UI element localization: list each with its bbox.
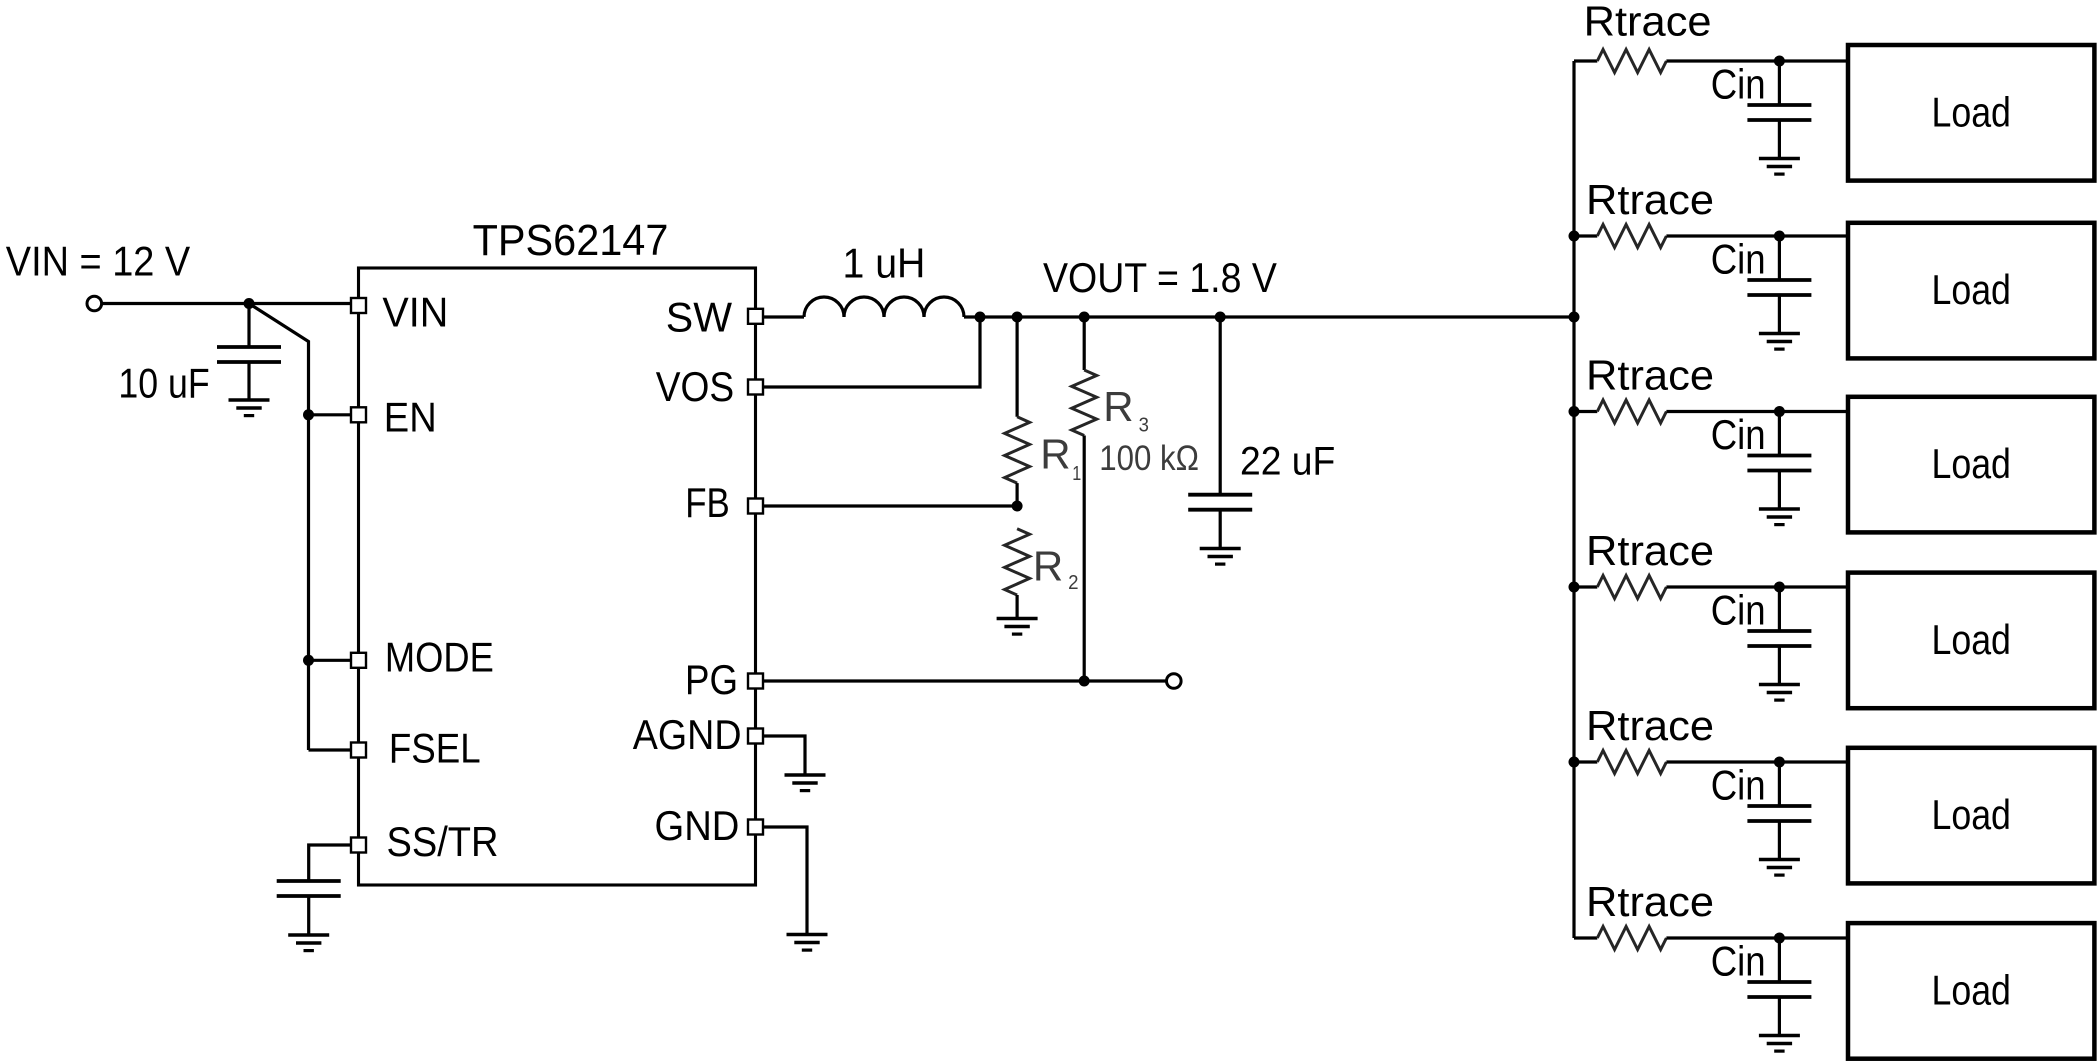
svg-text:MODE: MODE: [385, 633, 494, 680]
resistor Rtrace 2: [1597, 225, 1666, 248]
pin VIN: [351, 298, 366, 313]
node R3 top: [1079, 312, 1090, 323]
node Cin 3 junction: [1774, 406, 1785, 417]
ground Cin 2: [1778, 295, 1781, 334]
wire branch 2 left lead: [1574, 234, 1597, 237]
capacitor C 10uF: [247, 304, 250, 348]
ground Cin 3: [1778, 471, 1781, 510]
ground Cin 6: [1778, 997, 1781, 1036]
wire branch 5 to load: [1666, 760, 1850, 763]
node Cin 2 junction: [1774, 231, 1785, 242]
ground 22uF: [1219, 510, 1222, 549]
svg-text:Rtrace: Rtrace: [1584, 0, 1712, 44]
svg-text:3: 3: [1139, 414, 1149, 436]
PG output terminal: [1167, 674, 1182, 689]
node Cin 6 junction: [1774, 933, 1785, 944]
load box 5: [1848, 748, 2094, 884]
pin VOS: [748, 380, 763, 395]
ground Cin 1: [1778, 120, 1781, 159]
svg-text:Load: Load: [1931, 440, 2011, 487]
resistor R2: [1005, 529, 1030, 595]
capacitor Cin 3: [1778, 412, 1781, 456]
capacitor C2 22uF: [1219, 317, 1222, 495]
node Cin 4 junction: [1774, 582, 1785, 593]
svg-text:FB: FB: [685, 479, 730, 526]
wire PG: [752, 679, 1167, 682]
svg-text:Rtrace: Rtrace: [1586, 527, 1714, 574]
node FB junction: [1012, 501, 1023, 512]
wire branch 1 to load: [1666, 59, 1850, 62]
svg-text:FSEL: FSEL: [389, 725, 481, 772]
svg-text:SS/TR: SS/TR: [387, 818, 499, 865]
capacitor on SS/TR: [277, 879, 341, 883]
wire branch 3 left lead: [1574, 410, 1597, 413]
wire VIN input: [102, 302, 352, 305]
wire SS/TR stub: [309, 845, 352, 881]
node bus branch 5: [1569, 757, 1580, 768]
node Cin 5 junction: [1774, 757, 1785, 768]
svg-text:1 uH: 1 uH: [843, 240, 926, 287]
pin SS/TR: [351, 838, 366, 853]
node after inductor: [975, 312, 986, 323]
resistor R3: [1083, 317, 1086, 370]
svg-text:R: R: [1103, 383, 1133, 430]
node EN junction: [303, 409, 314, 420]
pin MODE: [351, 653, 366, 668]
pin SW: [748, 309, 763, 324]
wire VOS feedback: [752, 317, 980, 387]
ground R2: [997, 617, 1038, 621]
svg-text:VOS: VOS: [656, 363, 734, 410]
capacitor Cin 4: [1778, 587, 1781, 631]
svg-text:SW: SW: [666, 294, 733, 341]
svg-text:Rtrace: Rtrace: [1586, 352, 1714, 399]
wire branch 4 left lead: [1574, 585, 1597, 588]
wire branch 4 to load: [1666, 585, 1850, 588]
svg-text:VIN: VIN: [382, 289, 448, 336]
pin AGND: [748, 729, 763, 744]
node bus branch 2: [1569, 231, 1580, 242]
svg-text:100 kΩ: 100 kΩ: [1099, 439, 1199, 478]
svg-text:22 uF: 22 uF: [1240, 440, 1335, 484]
svg-text:10 uF: 10 uF: [118, 360, 209, 407]
wire EN stub: [309, 413, 353, 416]
node VOUT to bus: [1569, 312, 1580, 323]
load box 3: [1848, 397, 2094, 533]
capacitor Cin 1: [1778, 61, 1781, 105]
wire VOUT rail: [964, 315, 1574, 318]
svg-text:EN: EN: [384, 394, 437, 441]
resistor Rtrace 6: [1597, 927, 1666, 950]
svg-text:GND: GND: [655, 802, 740, 849]
svg-text:Cin: Cin: [1711, 762, 1766, 809]
ground 10uF: [247, 362, 250, 400]
svg-text:Cin: Cin: [1711, 236, 1766, 283]
wire FB: [752, 504, 1017, 507]
pin FSEL: [351, 743, 366, 758]
capacitor Cin 2: [1778, 236, 1781, 280]
wire branch 1 left lead: [1574, 59, 1597, 62]
wire branch 3 to load: [1666, 410, 1850, 413]
svg-text:Cin: Cin: [1711, 587, 1766, 634]
load box 1: [1848, 45, 2094, 181]
ground GND: [787, 933, 828, 937]
load box 4: [1848, 573, 2094, 709]
svg-text:R: R: [1033, 543, 1063, 590]
resistor Rtrace 5: [1597, 751, 1666, 774]
ground Cin 5: [1778, 821, 1781, 860]
capacitor Cin 5: [1778, 762, 1781, 806]
svg-text:TPS62147: TPS62147: [473, 217, 669, 265]
svg-text:2: 2: [1068, 572, 1078, 594]
pin PG: [748, 674, 763, 689]
wire VIN to EN bus diagonal: [249, 304, 309, 751]
svg-text:Load: Load: [1931, 616, 2011, 663]
load box 2: [1848, 223, 2094, 359]
wire load bus: [1572, 61, 1575, 938]
op-amp/IC U1 TPS62147 box: [359, 268, 756, 885]
wire branch 5 left lead: [1574, 760, 1597, 763]
svg-text:Cin: Cin: [1711, 411, 1766, 458]
svg-text:VIN = 12 V: VIN = 12 V: [6, 238, 190, 285]
VIN input terminal: [87, 296, 102, 311]
inductor L1 1uH: [804, 297, 844, 317]
ground SS/TR cap: [307, 896, 310, 935]
pin GND: [748, 820, 763, 835]
wire SW stub: [756, 315, 805, 318]
svg-text:Rtrace: Rtrace: [1586, 878, 1714, 925]
wire branch 2 to load: [1666, 234, 1850, 237]
svg-text:Load: Load: [1931, 88, 2011, 135]
wire GND: [752, 827, 807, 935]
svg-text:Rtrace: Rtrace: [1586, 176, 1714, 223]
svg-text:R: R: [1040, 431, 1070, 478]
load box 6: [1848, 923, 2094, 1059]
resistor R1: [1015, 317, 1018, 417]
svg-text:AGND: AGND: [633, 711, 742, 758]
ground AGND: [785, 773, 826, 777]
node bus branch 4: [1569, 582, 1580, 593]
pin EN: [351, 407, 366, 422]
svg-text:PG: PG: [685, 656, 738, 703]
pin FB: [748, 499, 763, 514]
ground Cin 4: [1778, 646, 1781, 685]
wire branch 6 left lead: [1574, 936, 1597, 939]
node VIN junction: [244, 298, 255, 309]
svg-text:Load: Load: [1931, 266, 2011, 313]
svg-text:Cin: Cin: [1711, 938, 1766, 985]
resistor Rtrace 3: [1597, 400, 1666, 423]
resistor Rtrace 1: [1597, 50, 1666, 73]
wire FSEL stub: [309, 748, 353, 751]
wire branch 6 to load: [1666, 936, 1850, 939]
node Cin 1 junction: [1774, 56, 1785, 67]
wire MODE stub: [309, 659, 353, 662]
svg-text:Load: Load: [1931, 966, 2011, 1013]
node R1 top: [1012, 312, 1023, 323]
svg-text:Cin: Cin: [1711, 61, 1766, 108]
svg-text:Rtrace: Rtrace: [1586, 702, 1714, 749]
node bus branch 3: [1569, 406, 1580, 417]
svg-text:VOUT = 1.8 V: VOUT = 1.8 V: [1043, 254, 1277, 301]
node 22uF top: [1215, 312, 1226, 323]
wire AGND: [752, 736, 805, 775]
svg-text:Load: Load: [1931, 791, 2011, 838]
node PG junction: [1079, 676, 1090, 687]
node MODE junction: [303, 655, 314, 666]
capacitor Cin 6: [1778, 938, 1781, 982]
svg-text:1: 1: [1072, 463, 1081, 485]
resistor Rtrace 4: [1597, 576, 1666, 599]
